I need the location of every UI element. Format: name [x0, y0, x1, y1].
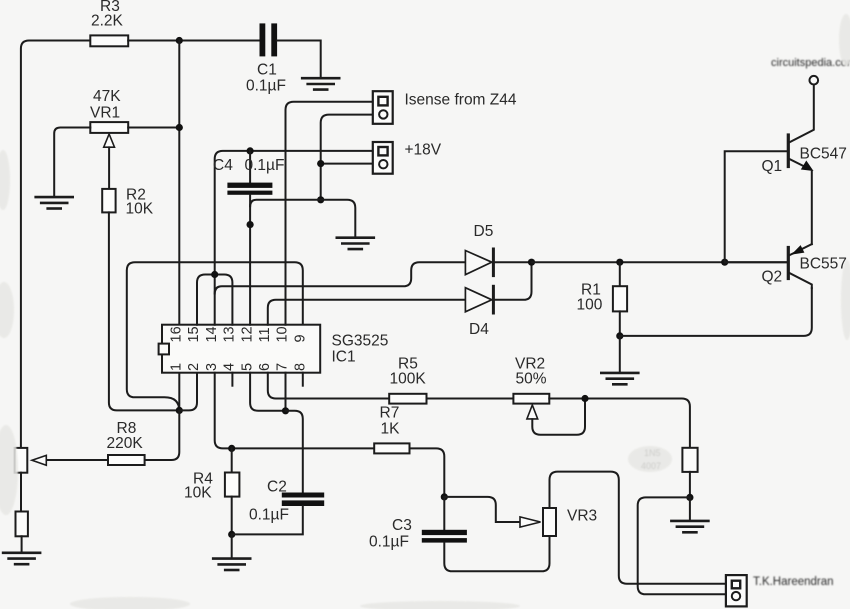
- op-amp/PWM IC U1 SG3525 body: [162, 325, 320, 373]
- svg-text:10K: 10K: [184, 485, 212, 502]
- svg-text:Isense from Z44: Isense from Z44: [405, 92, 517, 109]
- wire: node to ground: [231, 534, 233, 557]
- wire: pin 14 output branch to D5 (jog up at x=411): [215, 262, 466, 293]
- resistor (right, unlabeled): [682, 448, 697, 472]
- svg-text:3: 3: [204, 363, 220, 371]
- wire: arch tying pins 15,14,13: [197, 275, 232, 325]
- potentiometer VR3 body: [543, 508, 556, 536]
- wire: IC pin 3 to R4 top node and on to R7: [215, 373, 375, 449]
- svg-text:6: 6: [257, 363, 273, 371]
- node junction Q1 base feed: [721, 259, 728, 266]
- node junction pin7/pin5: [282, 407, 289, 414]
- resistor (bottom-left, unlabeled): [16, 512, 28, 537]
- VR1 wiper arrow: [104, 134, 115, 147]
- wire: lower resistor to ground: [21, 536, 23, 551]
- capacitor C4: [227, 183, 272, 195]
- svg-text:VR1: VR1: [90, 105, 120, 122]
- wire: VR1 wiper to R2: [108, 147, 110, 189]
- wire: pin7 node curving down to C2 top: [286, 411, 303, 493]
- wire: IC pin 1 stub down to node A: [178, 373, 180, 411]
- svg-text:8: 8: [292, 363, 308, 371]
- wire: R1 bottom lead to node: [619, 311, 621, 336]
- wire: VR1 right lead to rail: [128, 127, 179, 129]
- diode D5: [465, 249, 493, 276]
- svg-text:13: 13: [222, 326, 238, 342]
- node junction R1 top: [616, 259, 623, 266]
- node junction C3 top / VR3 wiper: [441, 493, 448, 500]
- wire: pot bottom to lower resistor: [20, 473, 22, 512]
- wire: Q1 base vertical from diode line: [725, 151, 787, 262]
- node junction on pin-12 wire: [247, 221, 254, 228]
- node junction R4 top: [228, 445, 235, 452]
- ground (right resistor): [671, 521, 708, 532]
- svg-text:VR3: VR3: [567, 508, 597, 525]
- svg-text:0.1µF: 0.1µF: [369, 534, 409, 551]
- wire: C4 top lead: [249, 151, 251, 183]
- transistor Q2 BC557 (PNP): [725, 244, 812, 288]
- resistor R5: [389, 394, 426, 404]
- transistor Q1 BC547 (NPN): [788, 76, 818, 244]
- resistor R2: [102, 189, 115, 213]
- ground (R4/C2): [213, 559, 250, 570]
- wire: ground line branch from C4 lead over to ground: [250, 200, 355, 237]
- resistor R1: [613, 286, 627, 311]
- svg-text:D5: D5: [474, 223, 494, 240]
- svg-text:Q2: Q2: [762, 269, 783, 286]
- svg-text:0.1µF: 0.1µF: [245, 157, 285, 174]
- svg-text:C3: C3: [392, 517, 412, 534]
- wire: C1 right to ground: [277, 41, 321, 77]
- svg-text:0.1µF: 0.1µF: [249, 507, 289, 524]
- wire: VR3 top lead over and down to output connector square pin: [550, 472, 726, 584]
- svg-text:+18V: +18V: [405, 142, 442, 159]
- wire: Q2 collector return to R1 bottom node: [620, 288, 812, 336]
- svg-text:C4: C4: [213, 157, 233, 174]
- wire: +18V circle pin to that vertical: [321, 163, 373, 165]
- node junction x=320.7/y=163.6: [317, 160, 324, 167]
- node junction R1 bottom / Q2 collector: [616, 332, 623, 339]
- wire: +18V feed left segment, curving down to pin 14 arch: [215, 151, 373, 325]
- wire: R7 right, turning down to C3 node: [410, 448, 445, 497]
- wire: VR2 right to node then to right resistor: [549, 399, 690, 448]
- wiper arrow (bottom-left potentiometer): [32, 455, 46, 465]
- wire: D5 cathode to main node line: [493, 261, 531, 263]
- wire: Isense circle pin over to vertical x=320.7: [321, 115, 373, 200]
- resistor R7: [374, 443, 409, 453]
- svg-text:Q1: Q1: [762, 158, 783, 175]
- resistor R4: [231, 448, 233, 472]
- connector J3 output (bottom right): [726, 575, 747, 606]
- wire: IC pin 4 stub: [231, 373, 233, 386]
- svg-text:10: 10: [275, 326, 291, 342]
- wire: node A down and left to R8: [145, 410, 180, 460]
- wire: IC pin 5 curving to pin 7 node: [250, 373, 285, 411]
- wire: node to ground: [619, 336, 621, 372]
- svg-text:15: 15: [186, 326, 202, 342]
- svg-text:50%: 50%: [516, 371, 547, 388]
- potentiometer VR1 body: [90, 122, 128, 133]
- wire: C3 top lead: [443, 497, 445, 530]
- wire: vertical rail x=179 from R3 junction to IC pin 16: [178, 41, 180, 325]
- svg-text:12: 12: [239, 326, 255, 342]
- wire: VR1 left lead to ground: [54, 128, 90, 196]
- node junction diode outputs: [528, 259, 535, 266]
- wire: R4 bottom to node: [231, 497, 233, 535]
- svg-text:100K: 100K: [390, 371, 427, 388]
- wire: resistor bottom to node: [689, 472, 691, 498]
- wire: C2 bottom lead to R4 bottom node: [232, 506, 303, 534]
- svg-text:IC1: IC1: [332, 349, 356, 366]
- node junction C4 top / +18V line: [247, 147, 254, 154]
- svg-text:D4: D4: [469, 321, 489, 338]
- node junction arch/pin14 vertical: [211, 271, 218, 278]
- svg-text:C2: C2: [267, 479, 287, 496]
- wire: pin 11 output to D4: [268, 300, 466, 325]
- connector J2 +18V: [373, 142, 393, 174]
- svg-text:C1: C1: [257, 62, 277, 79]
- svg-text:16: 16: [169, 326, 185, 342]
- svg-text:9: 9: [292, 334, 308, 342]
- VR3 wiper arrow: [520, 517, 541, 527]
- wire: R5 to VR2: [427, 398, 514, 400]
- svg-text:BC547: BC547: [800, 146, 847, 163]
- potentiometer body (bottom-left): [15, 448, 28, 473]
- wire: Isense square pin to IC pin 10: [286, 102, 373, 325]
- VR2 wiper arrow: [527, 405, 538, 419]
- node junction right resistor bottom: [686, 494, 693, 501]
- svg-text:5: 5: [239, 363, 255, 371]
- ground (VR1): [36, 197, 73, 208]
- wire: IC pin 7 stub to node: [285, 373, 287, 411]
- wire: IC pin 8 stub: [302, 373, 304, 386]
- svg-text:circuitspedia.com: circuitspedia.com: [771, 57, 850, 69]
- node junction R4 bottom / C2 bottom: [228, 531, 235, 538]
- resistor R8: [108, 455, 145, 465]
- resistor R3: [90, 35, 128, 46]
- capacitor C2: [282, 493, 324, 507]
- wire: top-left rail from R3 left end down the left edge: [21, 41, 90, 448]
- connector J1 Isense: [373, 91, 393, 124]
- wire: VR2 wiper looped to right terminal node: [532, 399, 585, 435]
- svg-text:2.2K: 2.2K: [91, 13, 124, 30]
- IC pin-1 notch marker: [159, 344, 169, 355]
- ground (signal ground, C4 / +18V return): [337, 238, 374, 249]
- potentiometer VR2 body: [513, 394, 549, 404]
- svg-text:BC557: BC557: [800, 256, 847, 273]
- wire: IC pin 2 curving left to node A: [179, 373, 197, 411]
- ground (R1): [601, 373, 638, 384]
- diode D4: [465, 286, 493, 313]
- node junction VR1/rail: [176, 124, 183, 131]
- node junction R3/VR1 rail top: [176, 37, 183, 44]
- svg-text:SG3525: SG3525: [332, 333, 389, 350]
- wire: R1 top lead: [619, 262, 621, 286]
- wire: R3 right to C1: [128, 40, 259, 42]
- svg-text:R7: R7: [380, 405, 400, 422]
- wire: R8 left to bottom-left potentiometer wiper arrow: [47, 459, 109, 461]
- svg-text:47K: 47K: [93, 88, 121, 105]
- node A junction (pins 1,2 / R2 / R8 / loop): [176, 407, 183, 414]
- svg-text:0.1µF: 0.1µF: [246, 78, 286, 95]
- wire: node to VR3 wiper arrow: [444, 497, 520, 522]
- svg-text:11: 11: [257, 327, 273, 342]
- wire: C4 bottom lead down to IC pin 12: [249, 195, 251, 325]
- ground (C1): [302, 78, 339, 89]
- wire: C3 bottom lead around to VR3 bottom: [444, 536, 549, 571]
- wire: diode node to Q2 base: [532, 261, 787, 263]
- svg-text:1: 1: [169, 363, 185, 371]
- svg-text:14: 14: [204, 326, 220, 342]
- svg-text:7: 7: [275, 363, 291, 371]
- svg-text:2: 2: [186, 363, 202, 371]
- wire: compensation loop from IC pin 9 around left of IC down to node A: [127, 262, 303, 411]
- svg-text:4: 4: [222, 363, 238, 371]
- node junction x=320.7/y=199.8 on ground line: [317, 196, 324, 203]
- wire: node to ground: [689, 497, 691, 519]
- wire: node left and down to output connector circle pin: [638, 497, 726, 594]
- ground (bottom-left): [3, 553, 40, 564]
- wire: IC pin 6 to R5: [268, 373, 389, 399]
- svg-text:T.K.Hareendran: T.K.Hareendran: [753, 576, 834, 588]
- svg-text:220K: 220K: [107, 435, 144, 452]
- capacitor C3: [422, 530, 467, 543]
- capacitor C1: [260, 23, 278, 56]
- svg-text:1K: 1K: [381, 421, 401, 438]
- svg-text:100: 100: [577, 297, 603, 314]
- node junction VR2 loop: [581, 395, 588, 402]
- wire: D4 cathode up to D5 line: [493, 262, 531, 300]
- wire: R2 bottom to node A (pin1/pin2/R8 junction): [109, 212, 179, 410]
- svg-text:10K: 10K: [126, 201, 154, 218]
